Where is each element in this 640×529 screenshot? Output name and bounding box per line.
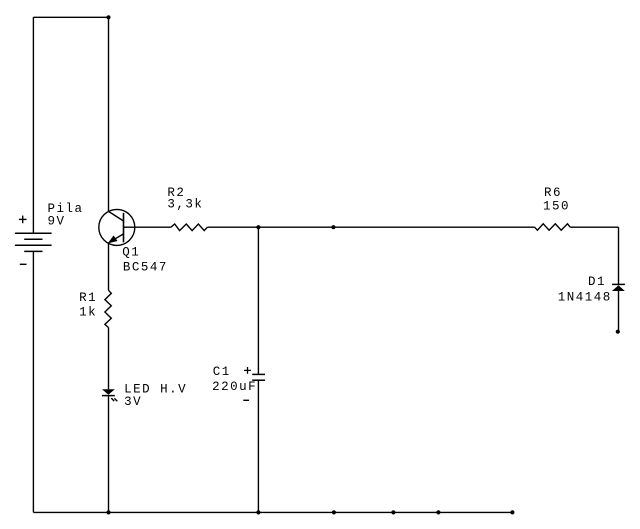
wire right vertical to D1	[618, 227, 620, 284]
battery Pila 9V	[15, 233, 52, 251]
battery plus sign	[19, 216, 27, 224]
svg-text:R1: R1	[79, 291, 97, 305]
junction bottom LED	[106, 510, 110, 514]
wire R1 to LED	[108, 328, 110, 390]
svg-text:3,3k: 3,3k	[167, 198, 203, 212]
resistor R2	[171, 224, 208, 231]
svg-text:9V: 9V	[48, 215, 66, 229]
junction mid rail	[331, 225, 335, 229]
wire D1 to terminal	[618, 291, 620, 331]
wire left vertical upper (battery + to top rail)	[32, 17, 34, 233]
junction bottom b	[391, 510, 395, 514]
junction top collector	[106, 15, 110, 19]
LED cathode bar	[102, 395, 115, 397]
wire base to R2	[124, 226, 171, 228]
svg-text:3V: 3V	[124, 395, 142, 409]
transistor Q1 emitter arrow	[108, 235, 118, 243]
svg-text:1N4148: 1N4148	[558, 290, 612, 304]
wire top horizontal	[33, 16, 108, 18]
terminal D1	[616, 330, 620, 334]
wire R2 to R6 middle rail	[207, 226, 534, 228]
diode D1 cathode bar	[612, 283, 625, 285]
battery minus sign	[20, 263, 27, 265]
resistor R1	[105, 290, 111, 327]
capacitor minus sign	[243, 399, 249, 401]
junction bottom C1	[256, 510, 260, 514]
wire collector vertical	[108, 17, 110, 211]
wire bottom rail	[33, 511, 512, 513]
svg-text:C1: C1	[213, 365, 231, 379]
wire C1 branch lower	[257, 380, 259, 512]
svg-text:220uF: 220uF	[212, 380, 257, 394]
capacitor C1	[252, 374, 265, 380]
LED H.V	[102, 389, 115, 394]
wire left vertical lower (battery - to bottom rail)	[32, 251, 34, 512]
wire emitter to R1	[108, 243, 110, 290]
terminal bottom right	[510, 510, 514, 514]
diode D1	[612, 285, 625, 291]
wire LED to bottom rail	[108, 396, 110, 513]
svg-text:R6: R6	[544, 186, 562, 200]
LED emission marks	[111, 398, 117, 401]
resistor R6	[535, 224, 571, 230]
junction bottom c	[436, 510, 440, 514]
junction bottom a	[332, 510, 336, 514]
transistor Q1	[99, 209, 135, 245]
svg-text:Q1: Q1	[122, 246, 140, 260]
svg-text:150: 150	[543, 200, 570, 214]
junction C1 top	[256, 225, 260, 229]
capacitor plus sign	[244, 367, 251, 374]
svg-text:1k: 1k	[79, 306, 97, 320]
wire C1 branch upper	[257, 227, 259, 374]
svg-text:D1: D1	[588, 275, 606, 289]
svg-text:BC547: BC547	[123, 261, 168, 275]
wire R6 to right corner	[570, 226, 618, 228]
